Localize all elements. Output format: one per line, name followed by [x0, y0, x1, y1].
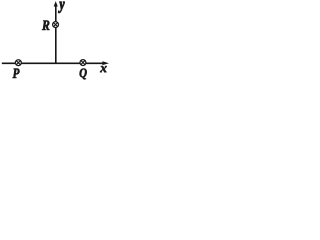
label y	[58, 2, 64, 13]
node R: field-into-page symbol	[53, 22, 59, 28]
label R	[42, 21, 49, 30]
x-axis arrowhead	[102, 61, 109, 65]
node P: field-into-page symbol	[15, 60, 21, 66]
y-axis arrowhead	[54, 1, 58, 6]
label x	[100, 66, 107, 72]
x-axis wire	[2, 62, 104, 64]
y-axis wire	[55, 4, 57, 63]
background	[0, 0, 115, 90]
node Q: field-into-page symbol	[80, 60, 86, 66]
label P	[13, 69, 20, 78]
label Q	[80, 69, 87, 80]
